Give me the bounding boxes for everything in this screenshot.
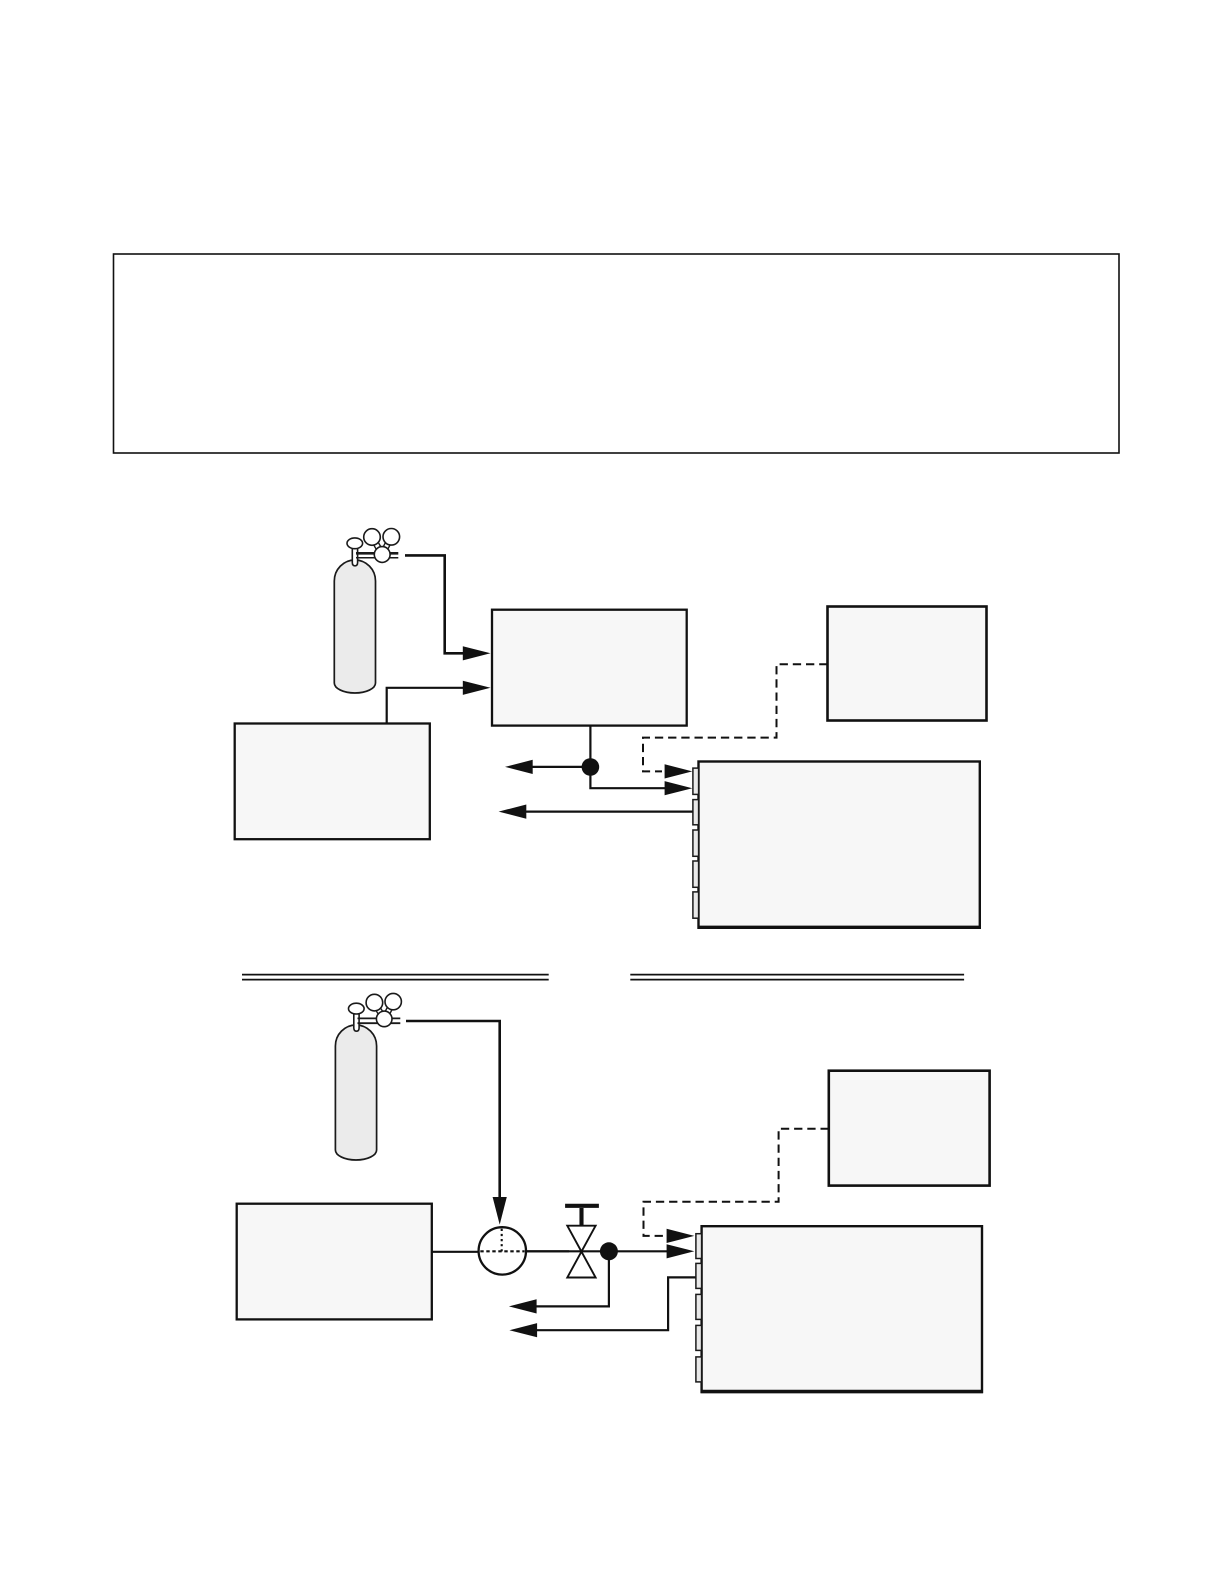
regulator 1 gauge links xyxy=(370,535,394,556)
flowmeter circle xyxy=(479,1227,526,1274)
junction dot 1 xyxy=(582,758,600,776)
regulator 2 body gauge xyxy=(376,1011,392,1027)
left box 2 xyxy=(237,1204,432,1320)
regulator 1 pipe xyxy=(356,553,398,557)
cylinder 2 valve stem xyxy=(354,1013,359,1031)
left box 1 xyxy=(235,724,430,840)
regulator 2 gauge links xyxy=(372,1001,395,1021)
wire left box 1 to center box xyxy=(387,688,463,724)
regulator 1 gauge A xyxy=(364,529,381,546)
wire center box 1 to junction xyxy=(589,726,591,767)
wire flowmeter to valve xyxy=(524,1250,569,1252)
arrowhead into flowmeter xyxy=(493,1197,507,1225)
analyzer 2 port tab 3 xyxy=(696,1294,702,1319)
valve handle 2 xyxy=(565,1204,599,1208)
analyzer 2 port tab 4 xyxy=(696,1325,702,1350)
right control box 1 xyxy=(828,607,987,721)
arrowhead into analyzer 2 main xyxy=(667,1244,695,1258)
valve body 2 xyxy=(567,1226,595,1278)
dashed control line 2 xyxy=(644,1129,829,1243)
cylinder 1 valve stem xyxy=(352,548,357,566)
regulator 2 pipe xyxy=(358,1018,401,1023)
wire valve 2 to analyzer xyxy=(526,1250,667,1252)
analyzer box 1 bottom edge xyxy=(698,926,981,929)
analyzer 1 port tab 3 xyxy=(693,830,699,856)
vent arrow 1 xyxy=(505,760,590,774)
analyzer box 1 xyxy=(699,762,980,928)
analyzer box 2 xyxy=(702,1226,982,1392)
analyzer box 2 bottom edge xyxy=(701,1390,983,1393)
wire cylinder 2 to flowmeter xyxy=(406,1021,500,1198)
cylinder 2 valve knob xyxy=(349,1003,365,1014)
valve stem 2 xyxy=(579,1208,583,1227)
regulator 1 body gauge xyxy=(374,547,390,563)
regulator 1 gauge B xyxy=(383,529,400,546)
wire junction 1 to analyzer xyxy=(590,767,692,795)
analyzer 1 port tab 2 xyxy=(693,800,699,825)
right control box 2 xyxy=(829,1071,990,1186)
dashed control line 1 xyxy=(643,664,828,778)
wire cylinder 1 to center box xyxy=(405,555,463,653)
exhaust arrow 2 xyxy=(509,1277,696,1337)
note box xyxy=(114,254,1120,453)
analyzer 2 port tab 2 xyxy=(696,1263,702,1288)
flowmeter dotted crosshair xyxy=(480,1229,524,1252)
section rule right xyxy=(630,975,964,980)
analyzer 1 port tab 4 xyxy=(693,861,699,887)
analyzer 2 port tab 5 xyxy=(696,1357,702,1382)
regulator 2 gauge A xyxy=(366,994,383,1011)
wire left box 2 to flowmeter xyxy=(432,1251,480,1253)
analyzer 2 port tab 1 xyxy=(696,1234,702,1259)
analyzer 1 port tab 1 xyxy=(693,768,699,794)
cylinder 1 valve knob xyxy=(347,538,363,549)
junction dot 2 xyxy=(600,1242,618,1260)
gas cylinder 1 xyxy=(334,560,375,693)
gas cylinder 2 xyxy=(335,1025,376,1160)
center box 1 xyxy=(492,610,687,726)
vent arrow 2 xyxy=(509,1251,609,1313)
analyzer 1 port tab 5 xyxy=(693,892,699,918)
arrowhead into center box lower xyxy=(463,681,491,695)
arrowhead into center box upper xyxy=(463,646,491,660)
section rule left xyxy=(242,975,549,980)
regulator 2 gauge B xyxy=(385,993,401,1009)
exhaust arrow 1 xyxy=(499,805,693,819)
